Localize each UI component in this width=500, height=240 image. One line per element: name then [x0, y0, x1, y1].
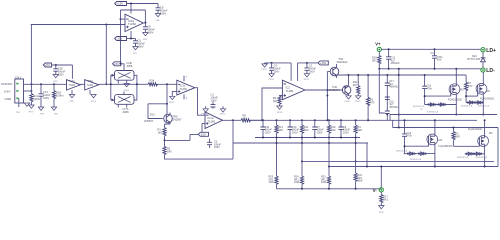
op-amp IC5a	[85, 80, 99, 90]
resistor R7 gate column	[465, 75, 473, 103]
wire decoupling rail left	[265, 62, 292, 64]
svg-text:BYT07-400: BYT07-400	[468, 58, 481, 61]
wire rail mid1	[302, 160, 494, 162]
transistor TN1	[327, 57, 347, 90]
ground under TN2	[345, 96, 352, 103]
wire feedback up to IC2 input	[262, 88, 282, 120]
wire lower bus rail	[233, 142, 368, 144]
node output junction	[144, 22, 146, 24]
resistor R22	[354, 173, 363, 189]
svg-text:10W: 10W	[321, 181, 327, 184]
zener D5 D6	[461, 101, 489, 116]
ground left below C1	[202, 106, 209, 115]
wire IC7a power pin	[71, 65, 73, 79]
svg-text:100V: 100V	[309, 70, 315, 73]
wire R8 to node	[250, 119, 264, 121]
wire decoupling rail right	[298, 62, 319, 64]
svg-text:PE13: PE13	[220, 114, 226, 116]
capacitor C3	[304, 63, 316, 74]
svg-text:450VAC: 450VAC	[391, 62, 400, 65]
mosfet M1	[476, 72, 494, 102]
svg-text:100V: 100V	[265, 131, 271, 134]
wire power pin stub	[130, 4, 132, 14]
svg-text:63V: 63V	[437, 59, 442, 62]
svg-text:IC5a: IC5a	[88, 80, 94, 83]
svg-text:2N2907A: 2N2907A	[329, 88, 340, 92]
capacitor C4	[269, 63, 281, 74]
wire V+ rail right	[381, 48, 481, 50]
wire descender R11 column	[301, 138, 303, 177]
resistor R14	[148, 79, 158, 86]
resistor R18	[52, 84, 64, 107]
svg-text:TL081: TL081	[286, 89, 294, 93]
ground under C18	[53, 75, 58, 84]
ground under R18	[51, 107, 59, 116]
svg-text:2N2907: 2N2907	[173, 118, 183, 122]
svg-text:FQA19N20C: FQA19N20C	[439, 145, 454, 148]
svg-text:BZX84C1A: BZX84C1A	[478, 105, 489, 108]
wire pin2 0-5V	[24, 90, 32, 92]
svg-text:450VAC: 450VAC	[389, 106, 398, 109]
ground under C5	[133, 47, 138, 56]
svg-text:100V: 100V	[214, 146, 220, 149]
svg-text:M4: M4	[439, 139, 443, 142]
op-amp IC1a	[205, 112, 223, 129]
svg-text:-15V: -15V	[200, 133, 206, 137]
terminal LD+	[481, 48, 496, 54]
resistor R2b	[367, 74, 375, 121]
wire gate rail lower	[393, 127, 498, 129]
svg-text:100V: 100V	[274, 70, 280, 73]
transistor TN2	[329, 74, 351, 96]
resistor R13	[275, 119, 284, 138]
ground under R21	[355, 96, 361, 103]
svg-text:IC7a: IC7a	[70, 80, 76, 83]
connector CN1	[1, 75, 24, 103]
mosfet M3	[448, 68, 464, 105]
resistor R23	[321, 176, 331, 189]
capacitor C11	[261, 119, 273, 138]
wire V- up to rail	[380, 167, 382, 188]
svg-text:10W: 10W	[357, 180, 363, 183]
ground under C13	[38, 107, 45, 116]
svg-text:1R0: 1R0	[357, 129, 362, 132]
svg-text:2N5457: 2N5457	[144, 119, 154, 123]
svg-text:FQA19N20C: FQA19N20C	[468, 128, 483, 131]
svg-text:1R0: 1R0	[331, 129, 336, 132]
power label +15V top	[115, 2, 127, 6]
svg-text:PE14: PE14	[277, 112, 283, 114]
ground under C4	[269, 74, 275, 81]
svg-text:LD-: LD-	[486, 68, 495, 74]
resistor R3 gate column	[452, 127, 461, 147]
wire power pin stub bottom	[130, 31, 132, 39]
svg-text:PE20: PE20	[169, 102, 175, 104]
svg-text:PE17: PE17	[304, 79, 310, 81]
wire M3 gate	[425, 95, 451, 97]
node junction bus/C13	[40, 83, 42, 85]
svg-text:4066: 4066	[123, 110, 130, 114]
svg-text:FQA19N20C: FQA19N20C	[448, 98, 463, 101]
svg-text:0-5V: 0-5V	[4, 90, 10, 94]
capacitor C13	[39, 84, 51, 107]
svg-text:+15V: +15V	[117, 2, 124, 6]
svg-text:1k0: 1k0	[158, 131, 163, 135]
op-amp IC7a	[67, 80, 81, 90]
terminal V+	[375, 41, 381, 51]
svg-text:1R0: 1R0	[455, 135, 460, 138]
node junction feedback tap	[166, 83, 168, 85]
ground under C8	[143, 33, 148, 42]
power label +15V right	[318, 61, 328, 65]
wire IC3a out down to IC1a	[195, 88, 205, 116]
svg-text:0R1: 0R1	[372, 59, 377, 62]
wire M4 gate	[405, 145, 429, 147]
wire M2 gate	[454, 145, 480, 147]
wire emitter down	[165, 123, 171, 128]
wire R14 to IC3a	[157, 83, 177, 85]
wire IC1a output	[223, 119, 242, 121]
resistor R25	[269, 176, 279, 189]
node junction bus/R18	[53, 83, 55, 85]
wire rail mid2	[329, 166, 498, 168]
svg-text:TL081: TL081	[87, 85, 94, 87]
op-amp IC3a	[177, 76, 195, 100]
svg-text:100V: 100V	[292, 131, 298, 134]
svg-text:1R0: 1R0	[304, 129, 309, 132]
svg-text:M2: M2	[489, 132, 493, 135]
svg-text:PE15: PE15	[262, 69, 268, 71]
svg-text:M3: M3	[460, 89, 464, 92]
svg-text:100V: 100V	[43, 96, 49, 100]
wire gate rail riser	[392, 120, 394, 127]
svg-text:-15V: -15V	[117, 37, 123, 41]
svg-text:+5V: +5V	[45, 63, 50, 67]
svg-text:M1: M1	[487, 90, 491, 93]
svg-text:1R0: 1R0	[167, 150, 172, 153]
node junction C4	[271, 62, 273, 64]
wire pin1 ON/OFF to bus	[24, 83, 67, 85]
capacitor C15	[385, 97, 399, 111]
resistor R17	[380, 192, 389, 206]
svg-text:BZX84C1A: BZX84C1A	[457, 156, 468, 159]
svg-text:ON/OFF: ON/OFF	[1, 82, 12, 86]
wire V+ column lower link	[379, 69, 385, 113]
diode D10	[468, 52, 486, 68]
svg-text:2N2222A: 2N2222A	[337, 60, 348, 64]
resistor R11	[300, 119, 309, 138]
op-amp IC4a	[125, 14, 143, 31]
wire LD- rail	[379, 68, 481, 70]
node junction top/IC5a-output vertical	[105, 24, 107, 26]
svg-text:470n: 470n	[407, 135, 413, 138]
svg-text:PE11: PE11	[124, 90, 130, 92]
capacitor C18	[53, 65, 65, 77]
wire left vertical of switches	[110, 75, 112, 100]
ground under R17	[379, 206, 385, 215]
wire source rail	[390, 114, 497, 116]
analog switch IC4b	[111, 61, 134, 84]
wire vertical to bus	[105, 25, 107, 85]
capacitor C8	[143, 23, 155, 35]
ground under CN1	[16, 103, 29, 114]
resistor R16	[372, 52, 381, 69]
svg-text:PE17: PE17	[379, 212, 385, 214]
svg-text:CN1: CN1	[15, 75, 21, 79]
capacitor C20	[385, 111, 390, 120]
zener D12 D13	[457, 152, 487, 167]
capacitor C6	[339, 119, 351, 138]
wire feedback vertical from top	[30, 25, 32, 94]
node junction pin2/vertical	[30, 90, 32, 92]
svg-text:D12: D12	[150, 113, 155, 117]
svg-text:1R0: 1R0	[278, 129, 283, 132]
wire bottom rail to V-	[277, 188, 382, 190]
wire top feedback horizontal	[31, 24, 125, 26]
wire right edge vertical	[497, 128, 499, 167]
resistor R24	[294, 176, 304, 189]
wire node to label riser	[165, 134, 199, 140]
ground under R9	[277, 106, 283, 114]
svg-text:V-: V-	[373, 188, 378, 193]
wire R1 to node	[164, 136, 166, 141]
wire x367 descender	[366, 143, 368, 167]
svg-text:100V: 100V	[343, 131, 349, 134]
power label +5V left	[43, 63, 51, 67]
ground under C9	[155, 14, 160, 23]
wire bank bottom rail	[255, 137, 360, 139]
svg-text:TL081: TL081	[69, 85, 76, 87]
capacitor C19 gate column	[402, 119, 413, 153]
svg-text:PE16: PE16	[269, 79, 275, 81]
svg-text:FQA19N20C: FQA19N20C	[480, 98, 495, 101]
terminal LD-	[481, 68, 495, 74]
svg-text:V+: V+	[375, 41, 381, 46]
svg-text:+15V: +15V	[320, 61, 327, 65]
svg-text:TL081: TL081	[208, 119, 216, 123]
power label -15V at IC1a	[198, 132, 208, 136]
svg-text:TL081: TL081	[180, 87, 188, 91]
wire down from output junction	[232, 120, 234, 159]
node junction feedback divider	[164, 139, 166, 141]
wire inverting input	[121, 18, 126, 20]
wire descender R4 column	[355, 138, 357, 174]
wire inverting input label	[202, 123, 205, 132]
svg-text:100Kn: 100Kn	[56, 94, 64, 98]
resistor R9	[273, 96, 283, 107]
ground under IC4b	[124, 84, 130, 93]
svg-text:BZX84C1A: BZX84C1A	[476, 156, 487, 159]
svg-text:PE19: PE19	[355, 101, 361, 103]
zener D9 D11	[396, 150, 436, 168]
power label -15V below IC4a	[115, 37, 127, 41]
capacitor C12	[386, 48, 400, 70]
svg-text:BZX84C1A: BZX84C1A	[427, 110, 438, 113]
power label +5V for switch block	[113, 62, 121, 66]
wire left stub rail	[389, 115, 391, 121]
svg-text:BZX84C1A: BZX84C1A	[410, 158, 421, 161]
wire IC2 output	[305, 89, 342, 91]
resistor R8	[241, 114, 251, 122]
wire feedback vertical	[166, 84, 168, 111]
mosfet M4	[427, 119, 453, 153]
svg-text:100Kn: 100Kn	[33, 97, 41, 101]
wire R2 to feedback return	[165, 155, 234, 159]
node junction pin1/vertical	[30, 83, 32, 85]
transistor TR9	[164, 111, 182, 124]
capacitor C7	[312, 119, 324, 138]
svg-text:C14: C14	[431, 52, 436, 55]
zener D2 D4	[413, 103, 457, 116]
capacitor C10	[288, 119, 300, 138]
capacitor C9	[156, 4, 168, 16]
resistor R2	[163, 140, 172, 154]
ground under R12	[29, 105, 34, 114]
svg-text:10W: 10W	[294, 181, 300, 184]
ground under IC7a	[69, 90, 74, 103]
wire pin3 GND	[18, 98, 20, 107]
svg-text:PE10: PE10	[91, 101, 97, 103]
ground right below C1	[220, 106, 226, 115]
ground at IC3a noninverting input	[169, 91, 177, 104]
node junction C3	[306, 62, 308, 64]
wire feedback loop top	[121, 10, 146, 64]
analog switch IC7b	[111, 92, 134, 115]
svg-text:BZX84C1A: BZX84C1A	[461, 105, 472, 108]
wire base vertical	[326, 90, 328, 120]
svg-text:+5V: +5V	[114, 62, 119, 66]
wire right vertical of switches	[134, 75, 137, 100]
svg-text:470n: 470n	[427, 87, 433, 90]
svg-text:BZX84C1A: BZX84C1A	[396, 150, 407, 153]
wire vertical x399	[398, 69, 400, 128]
node junction R8/feedback	[261, 119, 263, 121]
resistor R4	[354, 119, 363, 138]
resistor R19	[327, 119, 336, 138]
wire IC7a out to IC5a in	[81, 83, 85, 85]
wire M1 gate	[466, 95, 478, 97]
svg-text:47R: 47R	[370, 101, 375, 104]
svg-text:TL082: TL082	[128, 22, 136, 26]
svg-text:100V: 100V	[317, 131, 323, 134]
wire bank top rail	[250, 119, 478, 121]
svg-text:0R1: 0R1	[383, 198, 388, 201]
op-amp IC2	[282, 80, 305, 100]
svg-text:100V: 100V	[211, 98, 217, 102]
svg-text:LD+: LD+	[486, 48, 496, 54]
wire IC2 vplus pin	[290, 63, 292, 81]
svg-text:10W: 10W	[269, 181, 275, 184]
resistor R1	[158, 128, 167, 136]
wire descender R13 column	[276, 138, 278, 177]
capacitor C2b	[207, 139, 222, 150]
capacitor C5	[133, 39, 145, 49]
wire label to block	[121, 64, 124, 71]
ground flag left of C4	[262, 63, 268, 71]
capacitor C14	[431, 48, 444, 70]
resistor R21	[353, 74, 360, 96]
wire main bus to stage3	[99, 83, 148, 85]
wire trimmer branch	[148, 104, 167, 119]
svg-text:PE18: PE18	[345, 101, 351, 103]
svg-text:1k0: 1k0	[273, 99, 278, 103]
svg-text:4R7: 4R7	[353, 84, 358, 87]
mosfet M2	[468, 119, 493, 154]
resistor R12	[30, 94, 42, 102]
capacitor C1	[211, 92, 219, 109]
wire IC2 vminus pin	[297, 63, 299, 81]
wire -15V rail	[127, 38, 136, 40]
capacitor C16 gate column	[422, 74, 433, 105]
wire output	[143, 22, 145, 24]
capacitor C17	[385, 74, 399, 99]
wire +5V rail	[52, 64, 73, 66]
svg-text:GND: GND	[5, 97, 13, 101]
node junction C18	[55, 64, 57, 66]
svg-text:47R: 47R	[468, 85, 473, 88]
svg-text:4066: 4066	[127, 64, 133, 68]
wire gate rail upper	[337, 74, 467, 76]
svg-text:450VAC: 450VAC	[389, 86, 398, 89]
ground under IC5a	[90, 90, 97, 103]
node junction trimmer	[166, 103, 168, 105]
ground under C3	[304, 74, 310, 81]
svg-text:BZX84C1A: BZX84C1A	[413, 105, 424, 108]
wire +15V rail	[127, 3, 159, 5]
wire descender R19 column	[328, 138, 330, 177]
terminal V-	[373, 188, 384, 193]
